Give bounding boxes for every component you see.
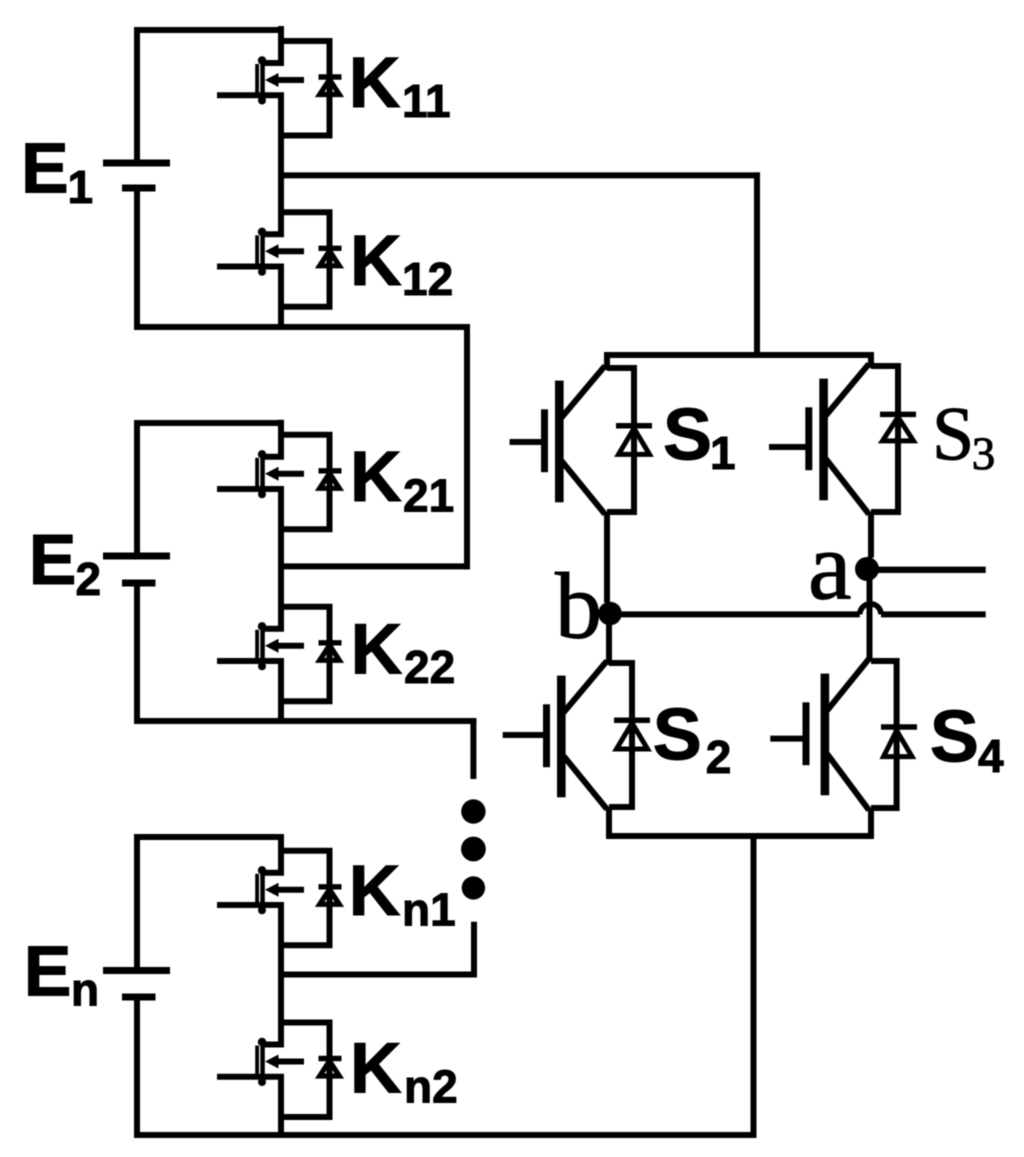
wire: K11 diode loop	[281, 26, 330, 139]
svg-text:n1: n1	[402, 883, 456, 935]
wire: bridge bottom rail	[606, 833, 874, 839]
svg-text:n2: n2	[404, 1060, 458, 1112]
svg-text:K: K	[349, 43, 401, 123]
wire: E2 top lead	[134, 423, 140, 553]
wire: Kn2 diode loop	[281, 1008, 330, 1121]
wire: S3 collector stub	[868, 352, 874, 368]
wire: E2 bottom rail	[134, 718, 476, 724]
antiparallel diode of K21	[319, 471, 342, 489]
ellipsis dots	[461, 799, 486, 899]
svg-text:n: n	[71, 963, 99, 1015]
wire: connector lower segment	[471, 922, 477, 978]
wire: K22 diode loop	[281, 592, 330, 705]
svg-text:12: 12	[402, 253, 453, 305]
battery E1	[103, 163, 170, 188]
transistor S3 (IGBT)	[769, 364, 869, 514]
svg-text:K: K	[350, 1029, 402, 1109]
label E2	[29, 520, 101, 605]
wire: connector upper segment	[470, 718, 476, 779]
svg-text:E: E	[24, 932, 72, 1012]
label K21	[350, 437, 454, 522]
label a	[808, 513, 852, 621]
svg-text:2: 2	[706, 731, 732, 783]
wire: output line from node a	[876, 567, 986, 573]
label Kn2	[350, 1029, 458, 1113]
svg-text:2: 2	[76, 553, 102, 605]
svg-text:K: K	[351, 610, 403, 690]
svg-text:E: E	[21, 129, 69, 209]
wire: E1 bottom rail	[134, 324, 470, 330]
wire: S1 collector stub	[604, 352, 610, 370]
wire: K21-K22 junction	[278, 529, 284, 607]
transistor S4 (IGBT)	[770, 659, 869, 810]
svg-text:K: K	[350, 221, 402, 301]
antiparallel diode of S1	[616, 426, 652, 455]
transistor Kn2 (MOSFET)	[217, 1038, 304, 1086]
wire: En top lead	[134, 837, 140, 967]
svg-text:S: S	[663, 393, 712, 476]
transistor K21 (MOSFET)	[217, 450, 304, 498]
label En	[24, 932, 99, 1016]
antiparallel diode of K22	[319, 643, 342, 661]
transistor K22 (MOSFET)	[217, 622, 304, 670]
wire: tap E1 midpoint to bridge	[281, 172, 760, 178]
wire: K11-K12 junction	[278, 136, 284, 213]
wire: Kn1 diode loop	[281, 836, 330, 949]
wire: E1 top lead	[134, 30, 140, 160]
svg-text:1: 1	[68, 161, 94, 213]
wire: tap En midpoint	[281, 972, 477, 978]
wire: output line from node b (right)	[881, 611, 986, 617]
label b	[555, 555, 602, 659]
wire: S2 collector/emitter and diode branch	[609, 663, 632, 839]
label E1	[21, 129, 93, 214]
wire: riser to bridge top	[754, 172, 760, 358]
wire: S3 collector/emitter and diode branch	[871, 366, 898, 558]
transistor K11 (MOSFET)	[217, 56, 304, 104]
wire: node a vertical	[867, 557, 873, 620]
wire: output line from node b (left)	[610, 611, 860, 617]
svg-text:a: a	[808, 513, 852, 621]
antiparallel diode of K12	[319, 248, 342, 265]
wire: E1 bottom lead	[134, 192, 140, 328]
wire: En top rail	[134, 834, 284, 840]
wire: bridge top rail	[604, 352, 874, 358]
wire: Kn2 to bottom rail	[278, 1117, 284, 1138]
antiparallel diode of Kn2	[319, 1059, 342, 1077]
wire: En bottom rail	[134, 1132, 757, 1138]
battery En	[103, 971, 170, 998]
svg-text:4: 4	[978, 730, 1004, 782]
svg-text:S: S	[930, 695, 979, 778]
wire: K12 diode loop	[281, 197, 330, 309]
wire: K12 to bottom rail	[278, 307, 284, 330]
wire: E2 top rail	[134, 420, 284, 426]
wire: S1 collector/emitter and diode branch	[607, 368, 634, 603]
wire: E1 top rail	[134, 27, 284, 33]
label S2	[653, 693, 731, 783]
svg-text:K: K	[350, 437, 402, 517]
antiparallel diode of S2	[614, 720, 650, 749]
transistor K12 (MOSFET)	[217, 228, 304, 276]
antiparallel diode of Kn1	[319, 887, 342, 905]
node b	[598, 602, 622, 626]
transistor S1 (IGBT)	[510, 366, 605, 514]
label S3	[932, 393, 995, 481]
svg-text:3: 3	[972, 428, 996, 480]
svg-text:K: K	[349, 851, 401, 931]
wire: connector section1-section2	[464, 324, 470, 569]
wire: K22 to bottom rail	[278, 701, 284, 724]
svg-text:b: b	[555, 555, 602, 659]
svg-text:E: E	[29, 520, 77, 600]
svg-text:22: 22	[404, 641, 455, 693]
svg-text:1: 1	[710, 427, 736, 479]
label K22	[351, 610, 456, 693]
label S1	[663, 393, 736, 480]
label K12	[350, 221, 453, 305]
label K11	[349, 43, 451, 127]
wire: S4 collector from node a	[867, 617, 873, 661]
wire: Kn1-Kn2 junction	[278, 945, 284, 1022]
wire: crossover hop	[860, 604, 881, 615]
wire: E2 bottom lead	[134, 587, 140, 722]
wire: En bottom lead	[134, 1001, 140, 1136]
svg-text:S: S	[653, 693, 702, 776]
antiparallel diode of K11	[319, 77, 342, 95]
label S4	[930, 695, 1004, 783]
node a	[855, 557, 879, 581]
transistor Kn1 (MOSFET)	[217, 866, 304, 914]
wire: S2 collector from node b	[606, 614, 612, 666]
label Kn1	[349, 851, 456, 936]
svg-text:11: 11	[402, 75, 451, 127]
svg-text:21: 21	[403, 470, 454, 522]
wire: K21 diode loop	[281, 420, 330, 533]
wire: tap E2 midpoint	[281, 563, 470, 569]
wire: S4 collector/emitter and diode branch	[871, 661, 897, 839]
wire: bridge drop to bottom rail	[751, 833, 757, 1138]
transistor S2 (IGBT)	[503, 661, 607, 809]
antiparallel diode of S3	[880, 414, 916, 441]
battery E2	[103, 556, 170, 583]
svg-text:S: S	[932, 393, 974, 477]
antiparallel diode of S4	[881, 727, 917, 757]
